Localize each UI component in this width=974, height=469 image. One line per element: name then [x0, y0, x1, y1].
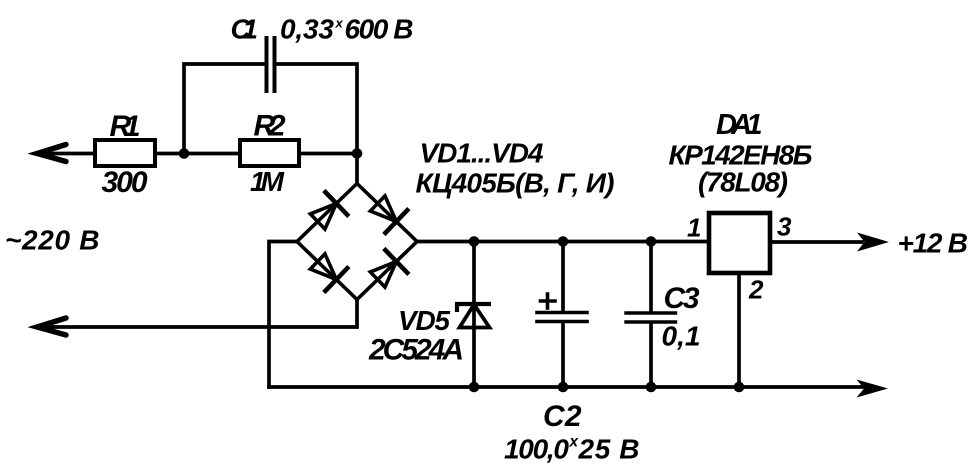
svg-text:1: 1	[687, 213, 701, 243]
svg-text:0,33: 0,33	[280, 14, 334, 45]
svg-text:КЦ405Б(В, Г, И): КЦ405Б(В, Г, И)	[416, 168, 615, 199]
svg-text:DA1: DA1	[716, 109, 763, 141]
svg-text:x: x	[335, 16, 344, 31]
svg-text:VD5: VD5	[398, 305, 450, 336]
svg-text:2С524А: 2С524А	[368, 334, 464, 367]
svg-text:VD1...VD4: VD1...VD4	[420, 138, 544, 169]
svg-text:+12 В: +12 В	[898, 228, 969, 259]
svg-text:1М: 1М	[250, 166, 285, 197]
svg-text:С2: С2	[543, 400, 582, 433]
svg-text:25 В: 25 В	[578, 434, 640, 465]
svg-text:100,0: 100,0	[504, 434, 569, 465]
svg-text:300: 300	[102, 166, 148, 199]
svg-text:600 В: 600 В	[345, 14, 414, 45]
svg-text:С1: С1	[231, 14, 259, 45]
svg-text:R1: R1	[110, 110, 141, 143]
svg-text:R2: R2	[254, 110, 286, 143]
svg-text:~220 В: ~220 В	[5, 225, 100, 256]
svg-text:С3: С3	[664, 282, 700, 315]
svg-text:2: 2	[748, 275, 764, 305]
svg-text:3: 3	[777, 212, 792, 242]
svg-text:(78L08): (78L08)	[698, 167, 788, 198]
svg-text:0,1: 0,1	[662, 321, 701, 352]
